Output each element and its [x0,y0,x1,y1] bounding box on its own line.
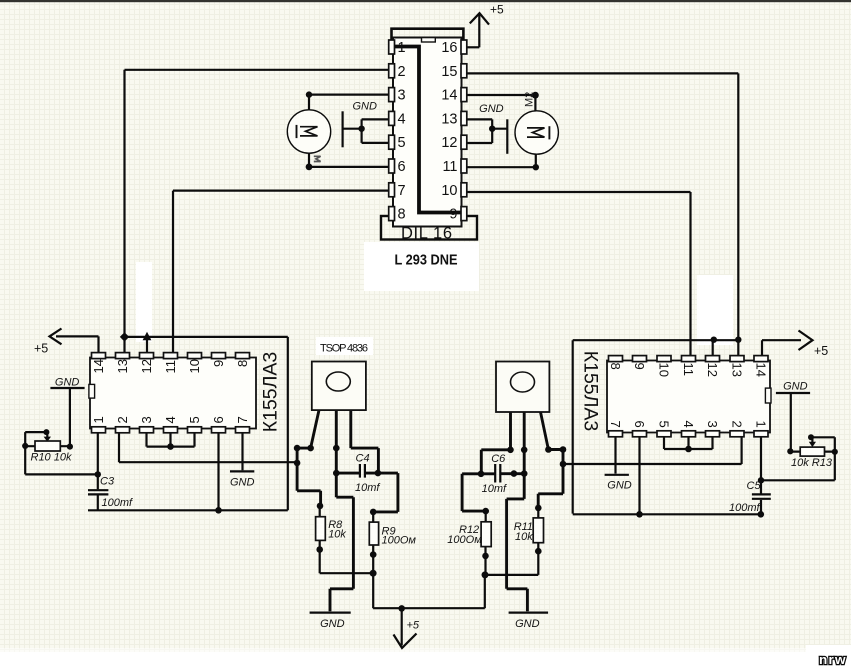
svg-text:nrw: nrw [819,652,847,666]
svg-text:11: 11 [681,363,696,377]
svg-text:100mf: 100mf [729,502,761,514]
svg-text:C6: C6 [491,453,506,465]
svg-text:14: 14 [754,363,769,377]
svg-text:GND: GND [55,377,80,389]
svg-text:6: 6 [398,159,406,175]
svg-text:10k: 10k [328,528,346,540]
svg-text:10mf: 10mf [355,482,380,494]
svg-text:9: 9 [449,207,457,223]
svg-text:7: 7 [235,416,250,423]
svg-text:C4: C4 [356,452,370,464]
svg-text:GND: GND [230,477,255,489]
svg-text:9: 9 [211,360,226,367]
svg-text:+5: +5 [34,342,48,356]
svg-text:16: 16 [441,40,457,56]
svg-text:8: 8 [235,360,250,367]
svg-text:GND: GND [783,380,808,392]
svg-text:8: 8 [398,207,406,223]
svg-text:1: 1 [754,421,769,428]
svg-text:GND: GND [515,618,540,630]
svg-text:7: 7 [398,183,406,199]
svg-text:2: 2 [730,421,745,428]
svg-text:M2: M2 [524,92,536,107]
svg-text:10k R13: 10k R13 [791,457,833,469]
svg-text:6: 6 [632,421,647,428]
svg-text:4: 4 [163,416,178,423]
svg-text:13: 13 [441,111,457,127]
svg-text:5: 5 [657,421,672,428]
svg-text:6: 6 [211,416,226,423]
svg-text:14: 14 [441,88,457,104]
svg-text:9: 9 [632,363,647,370]
svg-text:+5: +5 [814,344,828,358]
svg-text:C3: C3 [100,476,115,488]
svg-text:100Ом: 100Ом [447,534,482,546]
svg-text:К155ЛА3: К155ЛА3 [580,351,602,432]
svg-text:2: 2 [115,416,130,423]
svg-text:4: 4 [681,421,696,428]
svg-text:К155ЛА3: К155ЛА3 [260,352,282,433]
svg-text:1: 1 [91,416,106,423]
svg-text:8: 8 [608,363,623,370]
svg-text:14: 14 [91,359,106,373]
svg-text:5: 5 [398,135,406,151]
svg-text:3: 3 [398,88,406,104]
svg-text:10: 10 [187,359,202,373]
svg-text:GND: GND [607,479,632,491]
svg-text:3: 3 [139,416,154,423]
svg-text:10k: 10k [515,531,533,543]
svg-text:+5: +5 [490,3,504,17]
svg-text:TSOP 4836: TSOP 4836 [320,343,368,355]
svg-text:13: 13 [730,363,745,377]
svg-text:100Ом: 100Ом [382,534,417,546]
svg-text:12: 12 [705,363,720,377]
svg-text:15: 15 [441,64,457,80]
svg-text:11: 11 [163,360,178,374]
svg-text:11: 11 [442,159,457,175]
svg-text:10: 10 [441,183,457,199]
svg-text:1: 1 [398,40,406,56]
svg-text:GND: GND [320,618,345,630]
svg-text:10mf: 10mf [482,483,507,495]
svg-text:4: 4 [398,111,406,127]
svg-text:7: 7 [608,421,623,428]
svg-text:10: 10 [657,363,672,377]
svg-text:12: 12 [139,359,154,373]
svg-text:3: 3 [705,421,720,428]
svg-text:GND: GND [479,103,504,115]
svg-text:C5: C5 [747,480,762,492]
svg-text:100mf: 100mf [102,497,134,509]
svg-text:5: 5 [187,416,202,423]
svg-text:DIL 16: DIL 16 [401,225,452,243]
svg-text:+5: +5 [407,620,420,632]
svg-text:2: 2 [398,64,406,80]
svg-text:L 293 DNE: L 293 DNE [395,252,458,269]
svg-text:12: 12 [441,135,457,151]
svg-text:GND: GND [353,100,378,112]
svg-text:R10 10k: R10 10k [31,452,72,464]
svg-text:13: 13 [115,359,130,373]
